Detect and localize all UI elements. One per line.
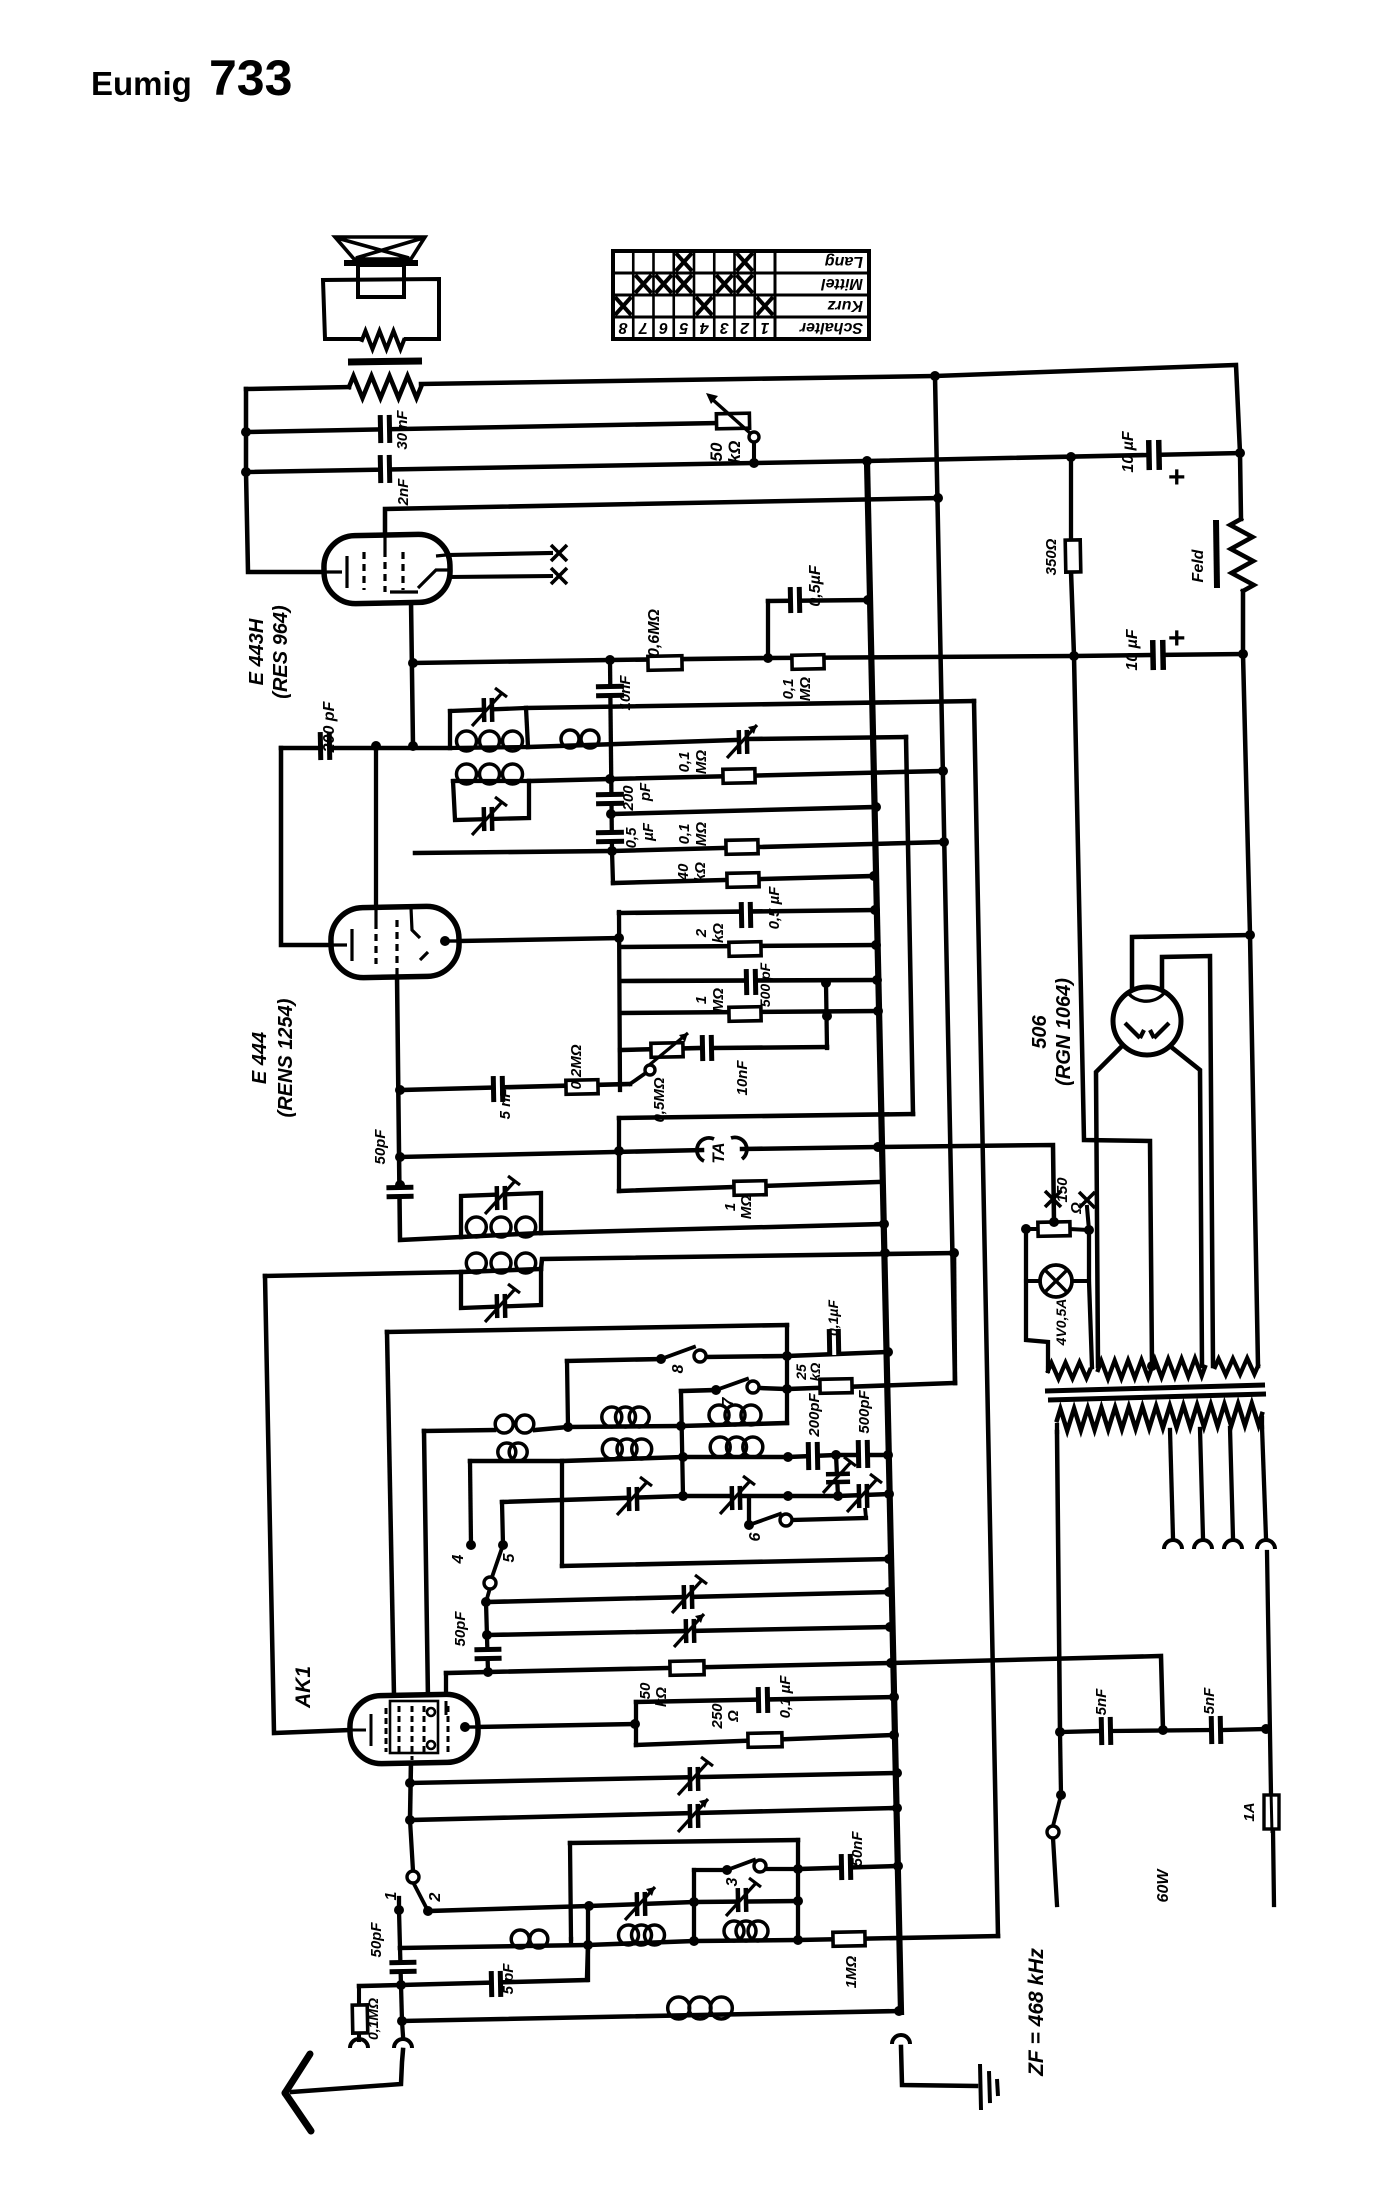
junction bbox=[885, 1622, 895, 1632]
speaker magnet frame bbox=[323, 279, 439, 339]
switch 6 contact bbox=[780, 1514, 792, 1526]
tube AK1 anode bbox=[460, 1722, 470, 1732]
wire 50pF antenna chain bbox=[400, 1948, 401, 1985]
wire 150ohm right bbox=[1069, 1229, 1089, 1230]
x-mark heater a bbox=[551, 545, 567, 561]
wire antenna trimmer line bbox=[428, 1901, 798, 1911]
wire plate bus top bbox=[246, 387, 349, 389]
wire coil column bbox=[567, 1361, 568, 1427]
svg-text:Lang: Lang bbox=[825, 253, 863, 270]
wire tuning cap line 1 to bus bbox=[486, 1592, 889, 1602]
junction bbox=[408, 658, 418, 668]
wire switch3 out bbox=[766, 1867, 798, 1871]
capacitor 200pF grid bbox=[320, 732, 330, 760]
junction bbox=[930, 371, 940, 381]
wire top band line bbox=[387, 1325, 787, 1332]
svg-text:250: 250 bbox=[709, 1703, 726, 1730]
wire TA box left vertical bbox=[617, 1118, 621, 1191]
wire to contact 4 bbox=[470, 1461, 471, 1545]
speaker cone bbox=[335, 237, 425, 259]
svg-text:kΩ: kΩ bbox=[692, 862, 709, 882]
wire main chassis bus bbox=[867, 461, 901, 2012]
capacitor 50pF osc bbox=[386, 1187, 413, 1197]
wire coil row 2 to bus bbox=[562, 1455, 888, 1461]
output transformer core bbox=[348, 361, 422, 362]
potentiometer 0.5M arrow bbox=[648, 1033, 688, 1066]
speaker voice coil bbox=[358, 265, 404, 297]
svg-text:50pF: 50pF bbox=[368, 1922, 385, 1958]
wire 10nF to corner bbox=[714, 1047, 827, 1048]
wire switch2 lever bbox=[414, 1884, 428, 1911]
svg-text:5: 5 bbox=[501, 1552, 518, 1562]
wire osc coil to bus bbox=[541, 1224, 884, 1233]
coil band 2 bbox=[709, 1405, 761, 1425]
connector antenna side bbox=[394, 2039, 412, 2048]
transformer winding 506 filament bbox=[1215, 1358, 1258, 1375]
junction bbox=[949, 1248, 959, 1258]
svg-text:5: 5 bbox=[678, 319, 688, 336]
svg-text:8: 8 bbox=[619, 319, 628, 336]
wire IFT1 box right bbox=[526, 708, 528, 747]
connector tap 2 bbox=[1194, 1540, 1212, 1549]
capacitor 10nF AF bbox=[702, 1035, 711, 1061]
trimmer antenna 1 bbox=[637, 1892, 645, 1916]
junction bbox=[605, 655, 615, 665]
junction bbox=[605, 774, 615, 784]
mains switch pole bbox=[1056, 1790, 1066, 1800]
svg-text:50nF: 50nF bbox=[849, 1831, 866, 1867]
connector chassis bbox=[892, 2035, 910, 2044]
wire 150ohm left bbox=[1026, 1227, 1039, 1231]
wire 0.6M node line to right bbox=[526, 701, 974, 708]
svg-text:+: + bbox=[1168, 461, 1186, 494]
svg-text:5nF: 5nF bbox=[1201, 1687, 1218, 1715]
junction bbox=[371, 741, 381, 751]
svg-text:Feld: Feld bbox=[1190, 548, 1207, 582]
junction bbox=[1261, 1724, 1271, 1734]
svg-text:0,5MΩ: 0,5MΩ bbox=[651, 1077, 668, 1122]
junction bbox=[892, 1803, 902, 1813]
potentiometer 50k wiper terminal bbox=[749, 432, 759, 442]
wire AK1 cathode down bbox=[410, 1760, 411, 1820]
wire TA box top bbox=[619, 1114, 913, 1118]
contact 1 bbox=[394, 1905, 404, 1915]
junction bbox=[689, 1936, 699, 1946]
wire between 5nF caps bbox=[1112, 1730, 1210, 1731]
junction bbox=[793, 1864, 803, 1874]
wire vertical bbox=[560, 1461, 564, 1566]
junction bbox=[889, 1730, 899, 1740]
wire 5pF line bbox=[359, 1945, 588, 1986]
wire IFT1 coil base bbox=[450, 747, 528, 748]
svg-text:0,1: 0,1 bbox=[780, 679, 797, 700]
wire primary left down to switch bbox=[1057, 1432, 1060, 1732]
x-mark heater AK1 b bbox=[1079, 1192, 1095, 1208]
trimmer band 2 bbox=[732, 1486, 740, 1510]
junction bbox=[408, 741, 418, 751]
wire to switch2 bbox=[410, 1820, 413, 1871]
wire to Feld coil bbox=[1240, 453, 1241, 519]
wire long vertical to TA box top bbox=[906, 737, 913, 1114]
svg-text:0,1 µF: 0,1 µF bbox=[777, 1675, 794, 1719]
wire box right vertical bbox=[796, 1840, 800, 1940]
speaker bar bbox=[344, 260, 418, 266]
svg-text:4: 4 bbox=[450, 1554, 467, 1564]
junction bbox=[886, 1658, 896, 1668]
svg-text:Ω: Ω bbox=[1068, 1202, 1085, 1215]
junction bbox=[793, 1896, 803, 1906]
switch 2 pole bbox=[423, 1906, 433, 1916]
wire to 0.1M bbox=[357, 1986, 361, 2006]
svg-text:50: 50 bbox=[707, 442, 726, 461]
svg-text:0,5: 0,5 bbox=[623, 827, 640, 849]
wire 10nF-200pF-0.5uF chain vertical bbox=[610, 660, 612, 851]
wire TA line to bus and heater X bbox=[742, 1145, 1054, 1222]
tube E443H bbox=[323, 534, 450, 604]
capacitor 500pF band bbox=[858, 1440, 868, 1468]
wire switch3 lever bbox=[727, 1860, 754, 1870]
coil antenna MW bbox=[495, 1415, 534, 1433]
svg-text:1: 1 bbox=[383, 1891, 400, 1900]
wire lamp left to winding A bbox=[1026, 1229, 1048, 1368]
wire down bbox=[401, 1985, 402, 2021]
wire switch8 out bbox=[705, 1356, 787, 1357]
resistor 1 Mohm TA bbox=[734, 1181, 766, 1196]
trimmer osc 2 bbox=[497, 1294, 505, 1318]
wire IFT1 box left bbox=[448, 711, 452, 748]
svg-text:µF: µF bbox=[640, 822, 657, 842]
capacitor 30nF bbox=[380, 415, 390, 443]
svg-text:50: 50 bbox=[637, 1682, 654, 1699]
wire IFT1 box top bbox=[450, 708, 526, 711]
wire mains switch lever bbox=[1053, 1795, 1061, 1826]
capacitor 50nF bbox=[841, 1854, 850, 1880]
coil antenna ground bbox=[668, 1997, 733, 2019]
junction bbox=[821, 978, 831, 988]
switch 8 pole bbox=[656, 1354, 666, 1364]
wire osc box 2 bbox=[461, 1269, 541, 1308]
wire 506 anode right bbox=[1170, 1046, 1202, 1366]
wire AK1 grid coil line bbox=[265, 1272, 461, 1276]
coil IFT2 secondary bbox=[457, 764, 523, 784]
variable capacitor gang 2 bbox=[686, 1619, 694, 1643]
junction bbox=[395, 1085, 405, 1095]
tube E444 anode bbox=[440, 936, 450, 946]
wire stub bbox=[569, 1939, 573, 1944]
wire switch5 feed bbox=[502, 1502, 503, 1545]
antenna symbol bbox=[285, 2054, 311, 2131]
wire trimmer to switch6 bbox=[864, 1496, 866, 1518]
mains switch contact bbox=[1047, 1826, 1059, 1838]
trimmer IFT2 bbox=[484, 807, 492, 831]
trimmer osc 1 bbox=[497, 1186, 505, 1210]
svg-text:kΩ: kΩ bbox=[710, 923, 727, 943]
wire 0.5uF line to bus bbox=[768, 600, 868, 601]
svg-text:5nF: 5nF bbox=[1093, 1688, 1110, 1716]
wire 5nF to fuse line bbox=[1222, 1729, 1266, 1730]
wire box top bbox=[570, 1840, 798, 1843]
wire screen/HT line with 0.6M 0.1M to 10uF2 bbox=[413, 654, 1243, 663]
junction bbox=[884, 1489, 894, 1499]
wire 250ohm row to bus bbox=[636, 1735, 894, 1745]
junction bbox=[873, 1142, 883, 1152]
svg-text:Mittel: Mittel bbox=[821, 275, 863, 292]
capacitor 200pF tap bbox=[596, 794, 624, 804]
svg-text:TA: TA bbox=[709, 1142, 728, 1163]
capacitor 2nF bbox=[380, 455, 390, 483]
svg-text:0,5µF: 0,5µF bbox=[807, 564, 824, 606]
svg-text:5 pF: 5 pF bbox=[500, 1963, 517, 1995]
svg-text:3: 3 bbox=[720, 319, 729, 336]
wire osc box 1 bbox=[461, 1193, 541, 1237]
wire bus to ground bbox=[901, 2047, 976, 2086]
junction bbox=[873, 1006, 883, 1016]
wire E443H cathode down bbox=[411, 600, 413, 746]
svg-text:1: 1 bbox=[760, 319, 769, 336]
wire antenna ground coil line to bus bbox=[402, 2011, 899, 2021]
junction bbox=[1147, 1361, 1157, 1371]
wire antenna coil row left bbox=[424, 1430, 494, 1431]
junction bbox=[884, 1554, 894, 1564]
wire IFT1 to trimmer0 bbox=[528, 740, 737, 747]
wire pot wiper down bbox=[752, 441, 756, 463]
svg-text:1MΩ: 1MΩ bbox=[843, 1955, 860, 1988]
connector tap 1 bbox=[1164, 1540, 1182, 1549]
wire coil row 2a bbox=[470, 1459, 562, 1464]
capacitor 5nF mains 2 bbox=[1211, 1716, 1221, 1744]
output transformer primary bbox=[349, 376, 421, 398]
capacitor 0.5uF anode bbox=[741, 902, 750, 928]
wire tuning cap line 2 to bus bbox=[487, 1627, 890, 1635]
wire vertical bbox=[681, 1391, 683, 1496]
junction bbox=[583, 1940, 593, 1950]
wire switch column vertical bbox=[785, 1325, 789, 1423]
field coil Feld bbox=[1230, 519, 1254, 591]
trimmer band 1 bbox=[629, 1487, 637, 1511]
wire down to AK1 bbox=[387, 1332, 394, 1696]
wire vertical bbox=[836, 1455, 838, 1496]
capacitor 0.5uF AF bbox=[790, 587, 799, 613]
junction bbox=[241, 427, 251, 437]
junction bbox=[395, 1152, 405, 1162]
transformer primary winding bbox=[1057, 1403, 1262, 1430]
svg-text:5 nF: 5 nF bbox=[497, 1088, 514, 1120]
svg-text:Schalter: Schalter bbox=[799, 319, 863, 336]
svg-text:2nF: 2nF bbox=[395, 478, 412, 507]
svg-text:7: 7 bbox=[720, 1396, 737, 1406]
resistor 250 ohm bbox=[748, 1733, 782, 1748]
svg-text:4V0,5A: 4V0,5A bbox=[1053, 1299, 1069, 1347]
potentiometer 50k arrow bbox=[712, 399, 750, 433]
wire gang cap line 1 to bus bbox=[410, 1773, 897, 1783]
svg-text:6: 6 bbox=[659, 319, 668, 336]
transformer HV winding bbox=[1098, 1358, 1205, 1378]
potentiometer 0.5M body bbox=[651, 1043, 683, 1058]
ground symbol bbox=[980, 2064, 998, 2110]
transformer winding 4V heaters bbox=[1048, 1362, 1090, 1379]
svg-text:6: 6 bbox=[747, 1532, 764, 1541]
wire E444 left grid lead bbox=[281, 748, 330, 945]
svg-text:3: 3 bbox=[724, 1877, 741, 1886]
junction bbox=[1238, 649, 1248, 659]
resistor 350 ohm bbox=[1065, 540, 1081, 572]
wire 1M TA row to bus bbox=[619, 1182, 879, 1191]
coil band 3 bbox=[498, 1443, 527, 1461]
junction bbox=[863, 595, 873, 605]
wire into AK1 bbox=[444, 1673, 448, 1700]
wire osc coil 1 line bbox=[461, 1233, 541, 1237]
svg-text:kΩ: kΩ bbox=[725, 441, 744, 464]
svg-text:(RGN 1064): (RGN 1064) bbox=[1053, 978, 1075, 1086]
svg-text:ZF = 468 kHz: ZF = 468 kHz bbox=[1025, 1948, 1048, 2077]
svg-text:Ω: Ω bbox=[725, 1710, 742, 1723]
variable capacitor tuning 1 bbox=[739, 730, 747, 754]
wire E444 grid vertical bbox=[374, 746, 378, 909]
resistor 40k bbox=[727, 873, 759, 888]
wire IFT2 coil line bbox=[453, 779, 529, 783]
svg-text:0,1µF: 0,1µF bbox=[825, 1300, 841, 1337]
wire 1M row bbox=[620, 1011, 878, 1013]
svg-text:10nF: 10nF bbox=[734, 1060, 751, 1096]
wire 500pF row bbox=[620, 980, 877, 981]
coil antenna aux bbox=[511, 1930, 548, 1948]
wire fuse feed bbox=[1267, 1552, 1271, 1795]
svg-text:30 nF: 30 nF bbox=[394, 410, 411, 450]
wire mains lead bbox=[1053, 1838, 1057, 1905]
wire lamp lead L bbox=[1026, 1279, 1041, 1283]
junction bbox=[482, 1630, 492, 1640]
switch 3 contact bbox=[754, 1860, 766, 1872]
svg-text:10 µF: 10 µF bbox=[1120, 430, 1137, 472]
junction bbox=[241, 467, 251, 477]
wire left vertical to E443H grid side bbox=[246, 389, 325, 572]
resistor 1 Mohm det bbox=[729, 1007, 761, 1022]
svg-text:MΩ: MΩ bbox=[710, 988, 727, 1012]
resistor 2k bbox=[729, 942, 761, 957]
svg-text:200: 200 bbox=[620, 785, 637, 812]
wire 506 anode left bbox=[1096, 1046, 1122, 1366]
variable capacitor gang 1 bbox=[684, 1585, 692, 1609]
wire 30nF line to volume pot bbox=[246, 423, 717, 432]
junction bbox=[749, 458, 759, 468]
junction bbox=[395, 1180, 405, 1190]
wire B+ right vertical bbox=[1243, 591, 1258, 1366]
wire vertical bbox=[586, 1906, 590, 1980]
wire switch5 out bbox=[486, 1588, 490, 1602]
capacitor 10uF electrolytic 1 bbox=[1149, 440, 1160, 470]
junction bbox=[1066, 452, 1076, 462]
fuse 1A bbox=[1264, 1795, 1279, 1829]
junction bbox=[1049, 1217, 1059, 1227]
junction bbox=[862, 456, 872, 466]
wire 506 filament to winding C bbox=[1162, 956, 1213, 1366]
svg-text:0,6MΩ: 0,6MΩ bbox=[646, 608, 663, 657]
trimmer antenna 2 bbox=[738, 1888, 746, 1912]
svg-text:2: 2 bbox=[740, 319, 750, 336]
resistor 0.2 Mohm bbox=[566, 1080, 598, 1095]
capacitor 500pF bbox=[746, 969, 755, 995]
svg-text:506: 506 bbox=[1029, 1014, 1051, 1048]
pilot lamp 4V 0.5A bbox=[1040, 1265, 1072, 1297]
junction bbox=[1158, 1725, 1168, 1735]
wire switch7 feed bbox=[681, 1390, 716, 1391]
wire osc coil 2 line bbox=[461, 1269, 541, 1272]
wire 0.1uF row to bus bbox=[636, 1697, 894, 1702]
wire to mains switch bbox=[1060, 1732, 1061, 1795]
junction bbox=[678, 1491, 688, 1501]
capacitor 50pF band bbox=[474, 1649, 501, 1659]
svg-text:60W: 60W bbox=[1155, 1868, 1172, 1903]
wire 5nF lead bbox=[1060, 1731, 1100, 1732]
junction bbox=[870, 905, 880, 915]
capacitor 5nF mains 1 bbox=[1101, 1717, 1111, 1745]
junction bbox=[1021, 1224, 1031, 1234]
junction bbox=[879, 1219, 889, 1229]
svg-text:Eumig: Eumig bbox=[91, 65, 192, 102]
junction bbox=[871, 940, 881, 950]
wire antenna coil line with 1M bbox=[400, 1936, 998, 1948]
resistor 150 ohm bbox=[1038, 1222, 1070, 1237]
switch 5 pole bbox=[498, 1540, 508, 1550]
junction bbox=[614, 933, 624, 943]
wire IFT2 box bbox=[453, 781, 529, 820]
wire coil row 1 bbox=[568, 1423, 787, 1427]
wire switch6 out bbox=[791, 1518, 866, 1520]
svg-text:2: 2 bbox=[427, 1892, 444, 1902]
svg-text:+: + bbox=[1168, 622, 1186, 655]
wire 506 filament to B+ bbox=[1132, 935, 1250, 989]
contact 4 bbox=[466, 1540, 476, 1550]
variable capacitor gang 3 bbox=[690, 1767, 698, 1791]
svg-text:0,1MΩ: 0,1MΩ bbox=[365, 1998, 381, 2040]
wire switch8 lever bbox=[661, 1347, 694, 1359]
resistor 0.1 Mohm screen bbox=[792, 655, 824, 670]
wire 5nF 0.2M line bbox=[400, 1084, 630, 1090]
wire trimmer0 to corner bbox=[748, 737, 906, 739]
tube E444 bbox=[330, 906, 459, 978]
wire switch7 out bbox=[760, 1388, 787, 1389]
svg-text:200pF: 200pF bbox=[806, 1392, 823, 1437]
svg-text:0,5 µF: 0,5 µF bbox=[766, 886, 783, 930]
wire switch3 feed bbox=[694, 1868, 727, 1872]
connector tap 3 bbox=[1224, 1540, 1242, 1549]
wire coil join bbox=[535, 1427, 568, 1430]
wire E443H heater 2 bbox=[449, 576, 551, 577]
junction bbox=[782, 1351, 792, 1361]
svg-text:7: 7 bbox=[638, 319, 648, 336]
wire fuse out bbox=[1273, 1830, 1274, 1905]
tube AK1 bbox=[349, 1694, 478, 1764]
junction bbox=[1235, 448, 1245, 458]
wire lamp lead R bbox=[1071, 1279, 1089, 1283]
wire stub bbox=[357, 2032, 361, 2040]
variable capacitor gang 4 bbox=[690, 1804, 698, 1828]
x-mark heater AK1 a bbox=[1045, 1191, 1061, 1207]
wire switch6 lever bbox=[749, 1514, 780, 1525]
trimmer band 4 bbox=[859, 1484, 867, 1508]
junction bbox=[884, 1587, 894, 1597]
svg-text:8: 8 bbox=[670, 1364, 687, 1373]
junction bbox=[894, 2006, 904, 2016]
junction bbox=[614, 1146, 624, 1156]
wire gang cap line 2 to bus bbox=[410, 1808, 897, 1820]
TA pickup terminals bbox=[697, 1138, 714, 1161]
svg-text:E 444: E 444 bbox=[249, 1032, 271, 1084]
wire plate bracket vertical bbox=[619, 912, 620, 1090]
wire E444 cathode chain down to osc coil bbox=[397, 975, 461, 1240]
junction bbox=[831, 1450, 841, 1460]
wire long right vertical to oscillator 1M line bbox=[974, 701, 998, 1936]
